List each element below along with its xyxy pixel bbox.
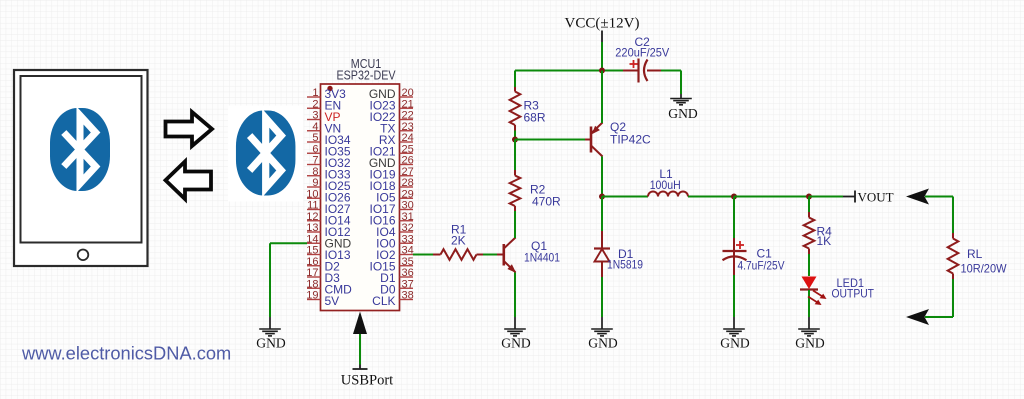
- svg-text:8: 8: [312, 166, 318, 178]
- svg-text:19: 19: [306, 290, 318, 302]
- svg-text:25: 25: [402, 143, 414, 155]
- svg-text:12: 12: [306, 211, 318, 223]
- svg-text:RL: RL: [967, 247, 983, 261]
- svg-text:10R/20W: 10R/20W: [961, 262, 1008, 276]
- svg-text:22: 22: [402, 110, 414, 122]
- svg-text:GND: GND: [795, 336, 825, 351]
- svg-text:CLK: CLK: [372, 294, 395, 308]
- svg-text:20: 20: [402, 87, 414, 99]
- svg-text:17: 17: [306, 267, 318, 279]
- svg-text:37: 37: [402, 278, 414, 290]
- svg-text:GND: GND: [720, 336, 750, 351]
- svg-text:23: 23: [402, 121, 414, 133]
- svg-text:1N5819: 1N5819: [607, 258, 643, 272]
- svg-text:14: 14: [306, 233, 318, 245]
- svg-text:38: 38: [402, 290, 414, 302]
- svg-text:GND: GND: [501, 336, 531, 351]
- svg-text:35: 35: [402, 256, 414, 268]
- svg-text:3: 3: [312, 110, 318, 122]
- svg-text:GND: GND: [668, 106, 698, 121]
- svg-text:2: 2: [312, 98, 318, 110]
- svg-text:32: 32: [402, 222, 414, 234]
- svg-text:5: 5: [312, 132, 318, 144]
- svg-text:4.7uF/25V: 4.7uF/25V: [738, 259, 785, 273]
- svg-text:21: 21: [402, 98, 414, 110]
- svg-text:7: 7: [312, 155, 318, 167]
- svg-text:www.electronicsDNA.com: www.electronicsDNA.com: [21, 343, 231, 364]
- svg-text:11: 11: [307, 200, 318, 212]
- svg-text:16: 16: [306, 256, 318, 268]
- svg-text:1N4401: 1N4401: [524, 251, 560, 265]
- svg-text:VOUT: VOUT: [858, 190, 894, 205]
- svg-text:470R: 470R: [532, 195, 561, 209]
- svg-text:30: 30: [402, 200, 414, 212]
- svg-text:4: 4: [312, 121, 318, 133]
- svg-text:1: 1: [312, 87, 318, 99]
- svg-text:29: 29: [402, 188, 414, 200]
- svg-text:15: 15: [306, 245, 318, 257]
- svg-text:9: 9: [312, 177, 318, 189]
- svg-text:13: 13: [306, 222, 318, 234]
- svg-text:27: 27: [402, 166, 414, 178]
- svg-text:VCC(±12V): VCC(±12V): [565, 16, 640, 32]
- svg-text:ESP32-DEV: ESP32-DEV: [337, 69, 397, 83]
- svg-text:5V: 5V: [325, 294, 340, 308]
- svg-text:2K: 2K: [451, 234, 466, 248]
- svg-text:6: 6: [312, 143, 318, 155]
- svg-text:33: 33: [402, 233, 414, 245]
- svg-text:USBPort: USBPort: [341, 373, 393, 389]
- svg-text:OUTPUT: OUTPUT: [832, 287, 875, 301]
- svg-text:GND: GND: [588, 336, 618, 351]
- svg-text:TIP42C: TIP42C: [610, 133, 651, 147]
- svg-text:10: 10: [306, 188, 318, 200]
- svg-text:18: 18: [306, 278, 318, 290]
- svg-text:1K: 1K: [817, 234, 832, 248]
- svg-text:GND: GND: [256, 336, 286, 351]
- svg-text:220uF/25V: 220uF/25V: [615, 46, 669, 60]
- svg-text:26: 26: [402, 155, 414, 167]
- svg-text:36: 36: [402, 267, 414, 279]
- svg-text:28: 28: [402, 177, 414, 189]
- svg-text:68R: 68R: [524, 111, 546, 125]
- svg-text:34: 34: [402, 245, 414, 257]
- svg-text:100uH: 100uH: [650, 178, 681, 192]
- svg-text:31: 31: [402, 211, 414, 223]
- svg-text:24: 24: [402, 132, 414, 144]
